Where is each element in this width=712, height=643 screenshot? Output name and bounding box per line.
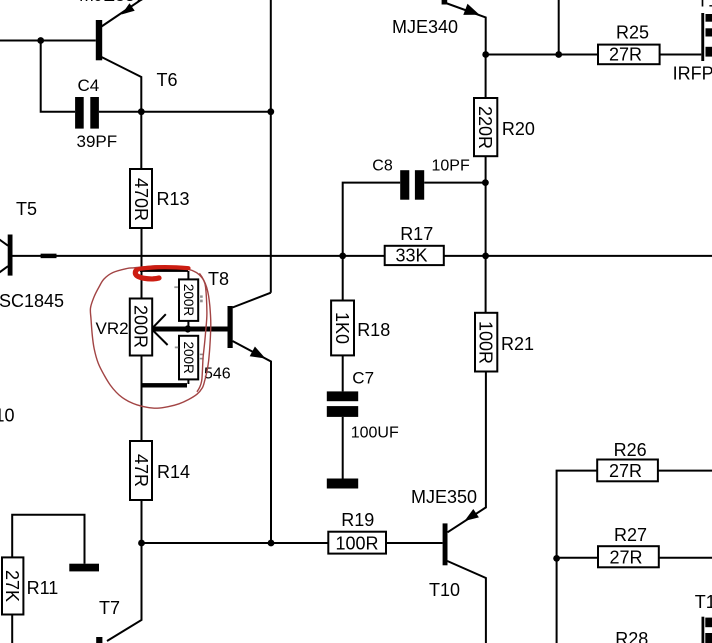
svg-text:200R: 200R bbox=[181, 284, 196, 317]
mosfet T11 (cut at right bottom) bbox=[695, 592, 712, 643]
svg-text:R28: R28 bbox=[615, 629, 648, 643]
transistor T7 (cut at bottom) bbox=[96, 598, 120, 643]
wire vertical net to MJE340 base column bbox=[270, 0, 272, 293]
wire main horizontal rail left bbox=[12, 255, 385, 257]
node junction R26 R27 column bbox=[553, 555, 560, 562]
potentiometer VR2 bbox=[96, 299, 153, 356]
wire T8 emitter drop bbox=[233, 341, 272, 543]
svg-text:R13: R13 bbox=[157, 189, 190, 209]
wire R11 bottom lead bbox=[11, 615, 13, 643]
svg-text:39PF: 39PF bbox=[77, 132, 118, 151]
wire R18 top lead bbox=[342, 256, 344, 301]
svg-text:27R: 27R bbox=[609, 461, 642, 481]
svg-text:470R: 470R bbox=[131, 178, 151, 221]
svg-text:200R: 200R bbox=[131, 305, 151, 348]
wire R21 bottom T10 emitter bbox=[448, 372, 486, 533]
wire main horizontal rail right bbox=[444, 255, 712, 257]
svg-text:C4: C4 bbox=[78, 76, 100, 95]
node junction MJE340 column bbox=[267, 108, 274, 115]
wire R13 bottom to VR2 top bbox=[141, 228, 143, 299]
wire T5 collector stub bbox=[0, 239, 8, 246]
wire C4 right to node bbox=[99, 111, 271, 113]
resistor R28 label (cut at bottom) bbox=[615, 629, 648, 643]
svg-text:VR2: VR2 bbox=[96, 319, 129, 338]
svg-text:IRFP240: IRFP240 bbox=[673, 64, 712, 84]
node junction rail R20 R21 bbox=[482, 253, 489, 260]
transistor T5 type label 2SC1845 bbox=[0, 291, 64, 311]
wire stub top 200R bbox=[187, 271, 189, 279]
svg-text:2SC1845: 2SC1845 bbox=[0, 291, 64, 311]
node junction top rail source column bbox=[555, 51, 562, 58]
wire R19 to T10 base bbox=[386, 542, 443, 544]
wire R14 bottom to lower rail node bbox=[141, 500, 143, 543]
svg-text:R10: R10 bbox=[0, 406, 15, 426]
svg-text:1K0: 1K0 bbox=[332, 312, 352, 344]
wire C4 left leg bbox=[41, 41, 75, 112]
svg-text:T11: T11 bbox=[695, 592, 712, 612]
wire C8 right to node bbox=[424, 182, 485, 184]
wire stub bottom 200R bbox=[187, 379, 189, 384]
text fragment behind upper 200R bbox=[200, 295, 203, 302]
svg-text:R14: R14 bbox=[157, 462, 190, 482]
svg-text:R18: R18 bbox=[357, 320, 390, 340]
ground bar below C7 bbox=[327, 479, 358, 489]
transistor T6 bbox=[96, 0, 178, 90]
wire node to R27 bbox=[557, 557, 598, 559]
transistor T8 type label 546 bbox=[204, 365, 231, 382]
node junction lower rail R14 bbox=[138, 540, 145, 547]
svg-text:C7: C7 bbox=[352, 369, 374, 388]
text fragment behind lower 200R bbox=[200, 354, 204, 360]
wire T10 collector drop bbox=[447, 561, 486, 643]
svg-text:27R: 27R bbox=[609, 45, 642, 65]
wire R11 top loop bbox=[12, 515, 84, 564]
resistor R17 bbox=[385, 224, 444, 266]
svg-text:T6: T6 bbox=[157, 70, 178, 90]
wire base T6 rail bbox=[0, 40, 96, 42]
transistor T8 bbox=[208, 269, 266, 359]
svg-text:R26: R26 bbox=[614, 440, 647, 460]
transistor T10 MJE350 bbox=[411, 487, 479, 600]
wire top right source column bbox=[558, 0, 560, 55]
svg-text:R11: R11 bbox=[27, 578, 59, 598]
ground bar near R11 bbox=[69, 564, 99, 572]
capacitor C4 bbox=[75, 76, 117, 151]
svg-text:27R: 27R bbox=[609, 548, 642, 568]
wire R27 right lead bbox=[659, 557, 712, 559]
wire T6 collector bbox=[102, 57, 142, 169]
wire T8 collector link bbox=[233, 293, 271, 308]
wire rail to R21 top bbox=[485, 256, 487, 313]
svg-text:R20: R20 bbox=[502, 119, 535, 139]
node junction wiper 200R midpoint bbox=[184, 325, 191, 332]
svg-text:33K: 33K bbox=[395, 246, 427, 266]
svg-text:T10: T10 bbox=[429, 580, 460, 600]
wire T7 collector riser bbox=[107, 543, 142, 641]
top link bar VR2 to 200R pair bbox=[140, 267, 188, 272]
svg-text:200R: 200R bbox=[181, 341, 196, 374]
red annotation arrow scribble bbox=[135, 267, 188, 279]
svg-text:R27: R27 bbox=[614, 525, 647, 545]
wire VR2 wiper thick bar bbox=[152, 327, 228, 332]
svg-text:T7: T7 bbox=[99, 598, 120, 618]
node junction rail R18 bbox=[339, 253, 346, 260]
mosfet T12 IRFP240 (cut at right top) bbox=[673, 0, 712, 84]
svg-text:R17: R17 bbox=[400, 224, 433, 244]
resistor R10 label fragment bbox=[0, 406, 15, 426]
wire lower rail to R19 bbox=[142, 542, 329, 544]
svg-text:10PF: 10PF bbox=[432, 158, 470, 175]
node junction C8 R20 bbox=[482, 179, 489, 186]
capacitor C7 bbox=[327, 369, 399, 442]
resistor R20 bbox=[474, 98, 535, 156]
resistor R14 bbox=[130, 441, 190, 500]
svg-text:R21: R21 bbox=[501, 334, 534, 354]
node junction C4-R13-T6 bbox=[138, 108, 145, 115]
svg-text:100UF: 100UF bbox=[351, 425, 399, 442]
text fragment left of upper 200R bbox=[174, 286, 178, 288]
resistor R11 bbox=[2, 557, 58, 614]
svg-text:MJE350: MJE350 bbox=[79, 0, 145, 5]
resistor R26 bbox=[597, 440, 658, 481]
node junction base rail left bbox=[37, 37, 44, 44]
wire C7 to ground bbox=[342, 417, 344, 479]
transistor T5 bbox=[8, 199, 37, 276]
resistor R19 bbox=[328, 510, 386, 554]
svg-text:T5: T5 bbox=[16, 199, 37, 219]
wire R20 top lead bbox=[485, 55, 487, 99]
resistor R13 bbox=[130, 169, 190, 228]
svg-text:R25: R25 bbox=[616, 23, 649, 43]
resistor R27 bbox=[598, 525, 659, 568]
wire T5 emitter stub bbox=[0, 266, 8, 273]
capacitor C8 bbox=[372, 158, 470, 200]
resistor R25 bbox=[598, 23, 660, 65]
wire wiper arrowhead bbox=[152, 314, 168, 345]
svg-text:T12: T12 bbox=[697, 0, 712, 11]
svg-text:MJE350: MJE350 bbox=[411, 487, 477, 507]
wire stub mid 200R bbox=[187, 321, 189, 327]
wire R20 bottom to C8 node to rail bbox=[485, 156, 487, 256]
wire top rail to R25 bbox=[486, 54, 598, 56]
svg-text:47R: 47R bbox=[131, 454, 151, 487]
wire VR2 bottom to R14 top bbox=[141, 356, 143, 442]
svg-text:100R: 100R bbox=[335, 534, 378, 554]
wire MJE340 emitter drop bbox=[444, 3, 485, 55]
transistor T9 MJE340 (cut at top) bbox=[392, 0, 480, 37]
resistor R18 bbox=[331, 301, 390, 356]
resistor R21 bbox=[475, 313, 534, 372]
svg-text:MJE340: MJE340 bbox=[392, 17, 458, 37]
red annotation ellipse bbox=[90, 266, 210, 408]
svg-text:T8: T8 bbox=[208, 269, 229, 289]
wire R26 left corner bbox=[557, 471, 598, 643]
wire R25 to gate IRFP bbox=[660, 54, 702, 56]
wire thick overlap segment on rail bbox=[41, 254, 57, 259]
text fragment left of lower 200R bbox=[175, 347, 178, 349]
resistor 200R upper bbox=[179, 279, 198, 321]
svg-text:27K: 27K bbox=[2, 570, 22, 602]
node junction lower rail T8 emitter bbox=[268, 540, 275, 547]
wire R26 right lead bbox=[658, 470, 712, 472]
wire C8 left loop bbox=[343, 183, 401, 256]
svg-text:C8: C8 bbox=[372, 158, 393, 175]
resistor 200R lower bbox=[179, 336, 198, 380]
bottom link bar VR2 to 200R pair bbox=[141, 383, 187, 387]
svg-text:220R: 220R bbox=[475, 106, 495, 149]
svg-text:R19: R19 bbox=[341, 510, 374, 530]
svg-text:100R: 100R bbox=[476, 321, 496, 364]
node junction MJE340 emitter top rail bbox=[482, 51, 489, 58]
wire R18 to C7 bbox=[342, 355, 344, 391]
transistor T6 type label MJE350 (cut at top) bbox=[79, 0, 145, 5]
